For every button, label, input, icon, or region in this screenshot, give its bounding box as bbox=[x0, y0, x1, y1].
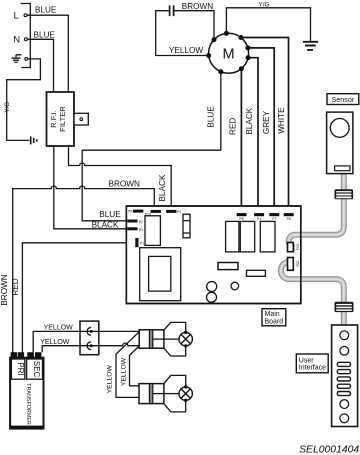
board pad P5 bbox=[128, 209, 143, 213]
chassis ground left bbox=[31, 136, 37, 144]
svg-text:User: User bbox=[299, 357, 314, 364]
svg-text:P4: P4 bbox=[177, 210, 181, 214]
svg-text:P1: P1 bbox=[257, 217, 261, 221]
wire through X1 pin1 to lamp connector bbox=[80, 330, 139, 332]
wire earth Y/G bbox=[4, 59, 41, 140]
svg-text:BLACK: BLACK bbox=[158, 174, 167, 201]
transformer T1 box bbox=[10, 358, 43, 429]
wire filter left output BLACK to P3 bbox=[54, 146, 127, 229]
transformer SEC compartment bbox=[27, 359, 43, 379]
svg-text:BROWN: BROWN bbox=[182, 2, 213, 11]
svg-text:P7: P7 bbox=[272, 217, 276, 221]
svg-text:CN1: CN1 bbox=[295, 244, 299, 251]
fuse F1 on board bbox=[183, 214, 190, 238]
svg-text:Sensor: Sensor bbox=[332, 95, 355, 104]
relay K1 on board bbox=[145, 216, 160, 246]
lamp 1 horn housing bbox=[164, 322, 186, 356]
svg-text:P1: P1 bbox=[140, 242, 144, 246]
circle component C3 on board bbox=[207, 292, 217, 302]
svg-text:BLUE: BLUE bbox=[99, 210, 121, 219]
svg-text:Y/G: Y/G bbox=[258, 2, 269, 9]
svg-text:L: L bbox=[14, 11, 19, 22]
svg-text:Interface: Interface bbox=[299, 365, 326, 372]
motor M1 bbox=[209, 33, 249, 73]
svg-text:CN2: CN2 bbox=[295, 261, 299, 268]
terminal N bbox=[13, 35, 27, 46]
ground symbol top right bbox=[303, 42, 318, 50]
wire YELLOW sec1 bbox=[33, 325, 80, 353]
wire RED to board P1 bbox=[22, 243, 135, 353]
svg-text:P6: P6 bbox=[287, 217, 291, 221]
lamp L1 bulb bbox=[179, 331, 192, 348]
component rect A on board bbox=[218, 263, 238, 270]
lamp supply connector block X1 bbox=[80, 321, 99, 355]
transformer terminal 3 bbox=[27, 352, 34, 359]
svg-text:BLUE: BLUE bbox=[34, 31, 56, 40]
circle component C2 on board bbox=[207, 282, 217, 292]
main board label box bbox=[262, 309, 286, 326]
component rect B on board bbox=[247, 270, 266, 276]
user interface cable grey bbox=[281, 262, 344, 325]
wire BLUE motor to P2 (with corners) bbox=[82, 72, 221, 221]
svg-text:BLACK: BLACK bbox=[92, 220, 119, 229]
svg-text:SEC: SEC bbox=[32, 361, 41, 378]
sensor cable connector bbox=[335, 189, 354, 199]
wire Y/G motor to ground bbox=[226, 2, 310, 41]
board pad P4 (BLACK) bbox=[166, 210, 181, 214]
wire filter right output BLACK to P4 (with hop) bbox=[69, 146, 172, 210]
wire capacitor loop YELLOW bbox=[156, 11, 214, 56]
wire L BLUE to filter bbox=[27, 5, 68, 92]
user interface board bbox=[332, 325, 358, 427]
svg-text:Y/G: Y/G bbox=[4, 102, 11, 113]
transformer PRI compartment bbox=[11, 359, 24, 379]
wire BROWN to board P10 (with hops) bbox=[13, 186, 155, 353]
svg-text:BLUE: BLUE bbox=[207, 106, 216, 128]
svg-text:BROWN: BROWN bbox=[0, 274, 9, 305]
filter spade tab bbox=[74, 113, 88, 125]
terminal block bracket bbox=[21, 4, 31, 68]
circle component C4 on board bbox=[231, 282, 239, 290]
transformer terminal 4 bbox=[35, 352, 41, 359]
sensor body bbox=[327, 112, 353, 174]
capacitor C1 bbox=[170, 2, 214, 16]
svg-text:YELLOW: YELLOW bbox=[120, 357, 127, 386]
connector CN1 on board bbox=[288, 243, 300, 252]
relay K2 on board bbox=[226, 221, 239, 252]
svg-text:P3: P3 bbox=[139, 228, 143, 232]
terminal earth bbox=[25, 57, 28, 60]
svg-text:P8: P8 bbox=[240, 217, 244, 221]
relay K3 on board bbox=[240, 221, 254, 252]
transformer T2 on board bbox=[140, 248, 181, 301]
wire BLACK motor to board bbox=[248, 58, 258, 213]
svg-text:YELLOW: YELLOW bbox=[40, 339, 70, 346]
terminal L bbox=[14, 11, 27, 22]
transformer terminal 1 bbox=[11, 352, 17, 359]
board pad P7 (GREY motor) bbox=[269, 213, 279, 221]
lamp 2 connector bbox=[139, 384, 164, 404]
svg-text:P2: P2 bbox=[139, 220, 143, 224]
svg-text:BLUE: BLUE bbox=[35, 5, 57, 14]
main board border restroke bbox=[126, 206, 300, 304]
svg-text:R.F.I.: R.F.I. bbox=[49, 110, 58, 128]
svg-text:WHITE: WHITE bbox=[277, 107, 286, 134]
svg-text:Main: Main bbox=[265, 311, 280, 318]
svg-text:RED: RED bbox=[11, 278, 20, 295]
wire B diagonal junction to lower lamp bbox=[130, 347, 140, 386]
wire A diagonal junction to lower lamp bbox=[116, 332, 139, 398]
svg-text:P5: P5 bbox=[128, 209, 132, 213]
board pad P6 (WHITE motor) bbox=[284, 213, 294, 221]
main board outline bbox=[126, 206, 300, 304]
wire RED motor to board bbox=[240, 69, 242, 213]
user interface connector bbox=[335, 302, 354, 312]
X1 pin symbols bbox=[87, 327, 93, 349]
svg-text:M: M bbox=[223, 46, 235, 62]
svg-text:TRANSFORMER: TRANSFORMER bbox=[25, 383, 31, 425]
sensor label box bbox=[327, 94, 359, 105]
svg-text:GREY: GREY bbox=[262, 110, 271, 134]
svg-text:Board: Board bbox=[265, 318, 284, 325]
lamp L2 bulb bbox=[179, 385, 192, 402]
user interface label box bbox=[296, 354, 328, 373]
svg-text:SEL0001404: SEL0001404 bbox=[299, 445, 359, 455]
board pad P1 (RED) bbox=[135, 238, 144, 247]
svg-text:PRI: PRI bbox=[16, 362, 25, 375]
wire N BLUE to filter bbox=[27, 31, 55, 92]
wire YELLOW sec2 bbox=[40, 339, 80, 352]
svg-text:YELLOW: YELLOW bbox=[44, 325, 74, 332]
svg-text:YELLOW: YELLOW bbox=[169, 46, 203, 55]
board pad P2 (BLUE) bbox=[127, 220, 143, 224]
svg-text:RED: RED bbox=[228, 118, 237, 135]
svg-text:FILTER: FILTER bbox=[58, 106, 67, 132]
earth symbol at terminal block bbox=[12, 55, 22, 63]
R.F.I. filter box U1 bbox=[47, 92, 75, 146]
relay K4 on board bbox=[260, 221, 275, 252]
transformer terminal 2 bbox=[18, 352, 24, 359]
wire through X1 pin2 to lamp connector (hop over diagonal) bbox=[80, 343, 139, 346]
svg-text:BLACK: BLACK bbox=[245, 107, 254, 134]
board pad P10 (BROWN) bbox=[145, 210, 161, 217]
lamp 1 connector bbox=[139, 330, 164, 348]
board pad P8 (RED motor) bbox=[237, 213, 247, 221]
connector CN2 on board bbox=[288, 258, 300, 271]
lamp 2 horn housing bbox=[164, 375, 186, 412]
wire GREY motor to board bbox=[248, 48, 274, 213]
sensor cable grey bbox=[289, 171, 344, 248]
motor terminal dots bbox=[206, 31, 250, 74]
wire WHITE motor to board bbox=[241, 38, 289, 214]
svg-text:YELLOW: YELLOW bbox=[106, 364, 113, 393]
svg-text:N: N bbox=[13, 35, 20, 46]
board pad P1b (BLACK motor) bbox=[254, 213, 264, 221]
svg-text:BROWN: BROWN bbox=[109, 179, 140, 188]
board pad P3 (BLACK) bbox=[127, 227, 143, 232]
